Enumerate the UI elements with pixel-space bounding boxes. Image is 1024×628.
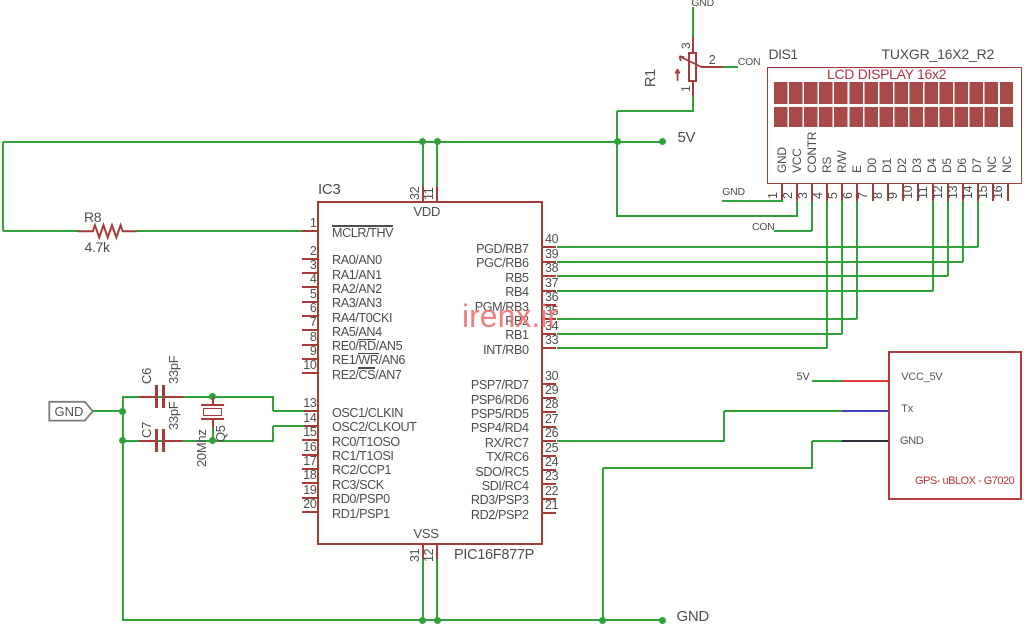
IC3 pin 35 stub [543,318,557,320]
DIS1 pin 7 stub [872,184,874,201]
GPS pin label GND [900,436,924,447]
IC3 pin 27 stub [543,426,557,428]
net label GND (LCD pin1) [722,187,744,198]
DIS1 pin label D3 [911,158,924,173]
IC3 pin 26 stub [543,440,557,442]
DIS1 designator [769,47,798,61]
junction 5V/VDD11 [434,138,441,145]
DIS1 pin label E [851,165,864,173]
DIS1 pin number 3 [797,193,810,200]
IC3 pin 30 stub [543,383,557,385]
IC3 pin number 21 [545,499,558,512]
IC3 pin label RA4/T0CKI [332,312,392,325]
IC3 pin number 24 [545,456,558,469]
wire R1 pin1 vertical [692,95,694,112]
DIS1 pin number 13 [947,186,960,199]
IC3 pin 13 stub [302,410,319,412]
wire R1 bottom branch horizontal [617,110,692,112]
IC3 pin number 8 [310,331,317,344]
wire to LCD VCC pin 2 [617,215,797,217]
DIS1 pin number 10 [902,186,915,199]
IC3 pin 38 stub [543,275,557,277]
DIS1 pin number 6 [842,193,855,200]
junction rail/GPS gnd [599,617,606,624]
IC3 pin label RB2 [505,315,528,328]
IC3 pin label RA3/AN3 [332,297,382,310]
IC3 pin number 33 [545,334,558,347]
IC3 pin label RD1/PSP1 [332,508,390,521]
IC3 pin number 30 [545,370,558,383]
DIS1 pin 11 stub [932,184,934,201]
R1 pin number 3 [680,43,692,49]
wire LCD pin 2 drop [796,201,798,218]
wire LCD pin11 vertical [932,201,934,291]
IC3 pin 36 stub [543,304,557,306]
DIS1 pin number 11 [917,187,930,199]
junction GND/C7 row [119,437,126,444]
wire 5V to VDD pin 32 [422,142,424,188]
wire VSS pin31 to rail [422,559,424,620]
node 5V endpoint [659,138,666,145]
IC3 pin 23 stub [543,483,557,485]
DIS1 pin label D6 [956,158,969,173]
junction crystal top [209,393,216,400]
R8 value 4.7k [85,240,110,254]
wire R1 pin2 to CON [723,66,738,68]
wire GND terminal to junction [93,410,123,412]
IC3 pin number 27 [545,413,558,426]
junction GND/pin13 row [119,408,126,415]
C7 designator [140,422,153,438]
wire LCD pin5 to IC3 [557,333,843,335]
IC3 pin label PSP5/RD5 [471,408,529,421]
IC3 pin number 25 [545,442,558,455]
resistor R8 [75,221,141,242]
IC3 pin label SDO/RC5 [475,466,528,479]
GPS Tx stub (blue) [842,410,888,412]
wire VSS pin12 to rail [436,559,438,620]
IC3 pin label PSP7/RD7 [471,379,529,392]
IC3 pin number 23 [545,470,558,483]
R1 pin 2 lead [701,66,723,68]
wire MCLR row R8 to IC3 pin 1 [136,230,304,232]
wire ground rail bottom [123,619,662,621]
IC3 pin number 36 [545,291,558,304]
DIS1 character cells row 1 [774,82,1013,104]
IC3 pin 40 stub [543,246,557,248]
DIS1 pin 8 stub [887,184,889,201]
IC3 pin 5 stub [302,301,319,303]
IC3 pin label OSC2/CLKOUT [332,421,416,434]
DIS1 pin label D5 [941,158,954,173]
IC3 pin 12 stub [436,544,438,559]
DIS1 pin 3 stub [811,184,813,201]
wire 5V to VDD pin 11 [436,142,438,188]
GPS pin label VCC_5V [901,372,942,383]
DIS1 pin label NC [986,156,999,173]
DIS1 pin 12 stub [947,184,949,201]
IC3 pin number 12 [423,548,436,561]
DIS1 pin number 1 [767,193,780,200]
wire GPS GND horizontal [603,467,812,469]
crystal Q5 bottom plate [201,418,224,420]
IC3 pin label PGM/RB3 [475,301,529,314]
wire C7 row [123,440,273,442]
wire GPS GND to rail [602,468,604,621]
GPS VCC_5V stub (red) [842,380,888,382]
IC3 pin label RB4 [505,286,528,299]
DIS1 pin 15 stub [992,184,994,201]
IC3 pin 39 stub [543,261,557,263]
R1 pin 1 lead [692,81,694,96]
GPS module box [888,351,1022,500]
GPS pin label Tx [901,404,913,415]
IC3 pin 32 stub [422,186,424,202]
DIS1 pin 13 stub [962,184,964,201]
IC3 pin 6 stub [302,315,319,317]
net label GND bottom [677,609,709,624]
DIS1 pin 10 stub [917,184,919,201]
IC3 pin 11 stub [436,186,438,202]
R1 pin number 1 [680,85,692,91]
IC3 pin number 26 [545,427,558,440]
DIS1 pin 4 stub [826,184,828,201]
IC3 pin label SDI/RC4 [482,480,529,493]
IC3 pin label RC0/T1OSO [332,436,400,449]
wire GPS GND short [812,440,842,442]
IC3 pin label RD3/PSP3 [471,494,529,507]
wire LCD pin5 vertical [841,201,843,334]
DIS1 title LCD DISPLAY 16x2 [827,67,946,81]
capacitor C7 plates [155,429,158,452]
IC3 pin label RC2/CCP1 [332,464,391,477]
wire LCD pin4 to IC3 [557,347,828,349]
net label CON (R1) [738,57,760,68]
wire LCD pin13 vertical [962,201,964,262]
DIS1 pin label VCC [791,148,804,172]
C7 value 33pF [167,402,180,430]
wire IC3 RX/RC7 to Tx [557,440,724,442]
wire LCD pin12 vertical [947,201,949,277]
junction crystal bottom [209,437,216,444]
IC3 pin label RB5 [505,272,528,285]
wire LCD pin3 drop [811,201,813,232]
node rail endpoint [659,617,666,624]
C6 designator [140,368,153,384]
DIS1 pin number 9 [887,193,900,200]
DIS1 pin number 5 [827,193,840,200]
IC3 pin 31 stub [422,544,424,559]
Q5 bottom lead [212,420,214,428]
wire ground vertical x123 [122,396,124,622]
IC3 pin number 34 [545,320,558,333]
capacitor C6 plates [155,385,158,408]
wire LCD pin1 GND [722,200,783,202]
DIS1 pin 1 stub [781,184,783,201]
IC3 pin 18 stub [302,482,319,484]
DIS1 pin number 8 [872,193,885,200]
IC3 pin number 16 [303,441,316,454]
wire LCD pin4 vertical [826,201,828,349]
IC3 pin number 10 [303,359,316,372]
ground terminal text [55,405,84,418]
wire LCD pin12 to IC3 [557,275,948,277]
DIS1 pin number 14 [962,186,975,199]
IC3 VDD label [414,205,441,218]
IC3 pin 14 stub [302,425,319,427]
overline WR (pin9) [358,353,378,354]
IC3 pin 7 stub [302,329,319,331]
IC3 pin number 31 [409,548,422,561]
wire MCLR row left of R8 [3,230,79,232]
IC3 pin 15 stub [302,439,319,441]
net label CON (LCD) [752,222,774,233]
R8 designator [84,210,101,224]
IC3 pin 16 stub [302,454,319,456]
IC3 pin number 28 [545,398,558,411]
junction 5V/VDD32 [419,138,426,145]
IC3 pin 1 stub [302,230,319,232]
wire Tx vertical jog [723,411,725,442]
C6 left lead [139,396,156,398]
wire LCD pin6 to IC3 [557,318,858,320]
overline MCLR/THV [332,225,393,226]
IC3 pin label RE2/CS/AN7 [332,369,402,382]
wire LCD pin6 vertical [856,201,858,320]
crystal Q5 body [203,408,222,416]
DIS1 pin label D1 [881,158,894,173]
Q5 designator [214,425,227,442]
Q5 top lead [212,397,214,405]
C6 right lead [165,396,183,398]
IC3 pin 28 stub [543,411,557,413]
IC3 pin 4 stub [302,286,319,288]
IC3 pin number 4 [310,273,317,286]
trimmer R1 wiper arrow [672,50,732,95]
DIS1 value TUXGR_16X2_R2 [882,47,995,61]
DIS1 pin number 7 [857,193,870,200]
IC3 pin 2 stub [302,258,319,260]
wire LCD pin14 to IC3 [557,246,978,248]
wire 5V branch vertical at x617 [616,111,618,217]
IC3 pin number 9 [310,345,317,358]
C7 left lead [139,440,156,442]
IC3 pin label RE1/WR/AN6 [332,354,405,367]
GPS title GPS- uBLOX - G7020 [915,476,1014,487]
IC3 pin label RX/RC7 [485,437,529,450]
IC3 pin number 13 [303,397,316,410]
DIS1 pin 16 stub [1007,184,1009,201]
IC3 pin label TX/RC6 [486,451,528,464]
IC3 pin label PGD/RB7 [476,243,529,256]
wire left riser to R8/MCLR row [2,142,4,232]
C6 value 33pF [167,356,180,384]
DIS1 pin 14 stub [977,184,979,201]
wire GND to R1 pin 3 [692,7,694,38]
DIS1 pin label NC [1001,156,1014,173]
IC3 pin label RC1/T1OSI [332,450,393,463]
IC3 pin label OSC1/CLKIN [332,407,403,420]
IC3 pin 3 stub [302,272,319,274]
IC3 pin 17 stub [302,468,319,470]
wire C6 row [123,396,273,398]
wire to IC3 pin 14 [273,425,304,427]
IC3 pin number 20 [303,498,316,511]
DIS1 pin number 12 [932,186,945,199]
IC3 pin 25 stub [543,455,557,457]
GPS GND stub (dark) [842,440,888,442]
wire LCD pin11 to IC3 [557,290,933,292]
IC3 pin number 17 [303,455,316,468]
IC3 pin 22 stub [543,498,557,500]
DIS1 pin label D7 [971,158,984,173]
IC3 pin label PSP4/RD4 [471,422,529,435]
IC3 designator [318,182,340,197]
DIS1 character cells row 2 [774,107,1013,128]
IC3 pin number 3 [310,259,317,272]
DIS1 pin label GND [776,147,789,173]
IC3 pin number 5 [310,288,317,301]
IC3 VSS label [414,527,439,540]
IC3 pin label PGC/RB6 [476,257,529,270]
DIS1 pin 6 stub [856,184,858,201]
DIS1 pin 9 stub [902,184,904,201]
wire C6 row to pin13 vertical [272,396,274,412]
DIS1 pin number 4 [812,193,825,200]
IC3 value PIC16F877P [454,548,534,563]
R1 pin 3 lead [692,37,694,53]
net label GND top [691,0,714,8]
wire GPS GND drop [811,441,813,469]
watermark irenx.ir [462,300,558,332]
IC3 pin number 29 [545,384,558,397]
IC3 pin label RA1/AN1 [332,269,382,282]
IC3 pin number 32 [409,186,422,199]
IC3 pin number 1 [310,217,317,230]
ground terminal GND (pentagon) [48,400,95,423]
wire Tx horizontal [724,410,843,412]
DIS1 LCD outline [767,67,1022,184]
wire LCD pin14 vertical [977,201,979,248]
junction rail/pin12 [434,617,441,624]
IC3 PIC16F877P body [317,201,543,546]
IC3 pin number 11 [423,187,436,199]
overline RD (pin8) [358,339,375,340]
IC3 pin label RA2/AN2 [332,283,382,296]
wire 5V to GPS VCC [812,380,842,382]
trimmer R1 body [688,52,698,83]
DIS1 pin label CONTR [806,131,819,172]
DIS1 pin number 15 [977,186,990,199]
IC3 pin number 7 [310,316,317,329]
DIS1 pin number 16 [992,186,1005,199]
DIS1 pin label D2 [896,158,909,173]
IC3 pin label INT/RB0 [483,344,528,357]
IC3 pin number 18 [303,469,316,482]
IC3 pin number 2 [310,245,317,258]
IC3 pin number 6 [310,302,317,315]
DIS1 pin label RS [821,156,834,172]
net label 5V (GPS) [797,372,810,383]
IC3 pin label RC3/SCK [332,479,384,492]
Q5 value 20Mhz [195,429,208,467]
wire CON to LCD pin3 [774,230,812,232]
IC3 pin number 22 [545,485,558,498]
R1 designator [644,69,658,87]
IC3 pin label RA0/AN0 [332,254,382,267]
IC3 pin label RD0/PSP0 [332,493,390,506]
IC3 pin label RD2/PSP2 [471,509,529,522]
junction rail/pin31 [419,617,426,624]
wire C7 row to pin14 vertical [272,426,274,442]
R1 pin number 2 [709,54,716,67]
IC3 pin label PSP6/RD6 [471,394,529,407]
IC3 pin 34 stub [543,333,557,335]
DIS1 pin number 2 [782,193,795,200]
wire to IC3 pin 13 [273,410,304,412]
IC3 pin 37 stub [543,290,557,292]
IC3 pin 10 stub [302,372,319,374]
IC3 pin 19 stub [302,497,319,499]
IC3 pin 24 stub [543,469,557,471]
IC3 pin label RA5/AN4 [332,326,382,339]
net label 5V [678,130,696,145]
DIS1 pin 5 stub [841,184,843,201]
wire LCD pin13 to IC3 [557,261,963,263]
DIS1 pin 2 stub [796,184,798,201]
crystal Q5 top plate [201,404,224,406]
overline CS (pin10) [358,367,375,368]
IC3 pin label RE0/RD/AN5 [332,340,402,353]
IC3 pin 9 stub [302,358,319,360]
wire Q5 bottom to C7 row [212,428,214,441]
IC3 pin 21 stub [543,512,557,514]
IC3 pin number 15 [303,426,316,439]
IC3 pin label RB1 [505,329,528,342]
IC3 pin 8 stub [302,344,319,346]
IC3 pin number 39 [545,248,558,261]
wire 5V rail top [3,141,662,143]
IC3 pin number 40 [545,233,558,246]
IC3 pin label MCLR/THV [332,227,393,240]
IC3 pin number 35 [545,305,558,318]
DIS1 pin label D4 [926,158,939,173]
IC3 pin number 38 [545,262,558,275]
DIS1 pin label D0 [866,158,879,173]
IC3 pin number 14 [303,412,316,425]
DIS1 pin label R/W [836,150,849,172]
IC3 pin number 19 [303,484,316,497]
junction 5V branch [614,138,621,145]
IC3 pin 20 stub [302,511,319,513]
IC3 pin number 37 [545,277,558,290]
IC3 pin 33 stub [543,347,557,349]
C7 right lead [165,440,183,442]
IC3 pin 29 stub [543,397,557,399]
